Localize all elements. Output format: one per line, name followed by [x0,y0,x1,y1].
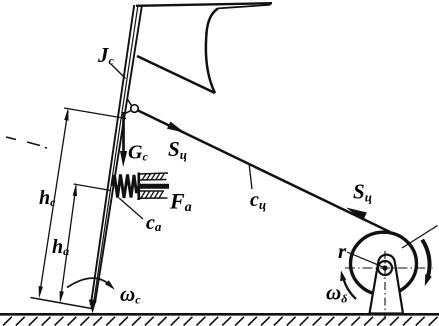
dashed reference line top-left [6,137,47,148]
cable c_u from mast to drum [138,111,390,233]
svg-text:r: r [338,239,347,263]
G_c weight arrow [122,112,125,153]
omega_delta small arc [344,279,357,299]
cable arrowhead S_u near mast (points down-right) [167,122,185,133]
r leader line [347,252,383,267]
big rotation arrow right of drum [422,240,429,280]
ring bracket strokes [127,99,132,107]
c_a leader line [119,198,143,219]
vertical centerline [384,251,386,320]
dimension h_a line [61,186,77,300]
fixed bracket vertical bar [137,173,140,201]
ground [0,313,439,316]
pedestal stand (white fill over drum) [370,255,404,314]
c_u leader line [249,163,252,189]
bracket bottom hatched band [139,191,168,198]
dimension h_c line [40,111,69,295]
diagonal pointer line top-right of drum [402,226,438,249]
flag bottom edge [137,56,215,93]
ground hatching [3,317,438,326]
cable attachment ring [131,105,139,113]
flag wedge lower line [218,5,271,9]
flag (sail) top edge [136,3,272,6]
bracket top hatched band [139,173,168,180]
drum (winch) circle [351,232,417,295]
h_c top tick [64,108,126,119]
cable arrowhead S_u near drum (points up-left) [346,208,367,221]
bracket middle rod (thick) [139,184,169,189]
flag right edge curve [206,8,218,93]
spring c_a [113,175,139,199]
hub center dot [382,265,387,270]
J_c leader line [111,64,126,79]
omega_c rotation arc [67,278,112,287]
hub circle [378,261,392,275]
baseline tick at mast foot [31,298,92,309]
mast (pole), double line with center line [91,5,142,308]
horizontal centerline [345,267,433,269]
h_a top tick [74,184,112,191]
mast foot arrowhead [89,300,97,314]
